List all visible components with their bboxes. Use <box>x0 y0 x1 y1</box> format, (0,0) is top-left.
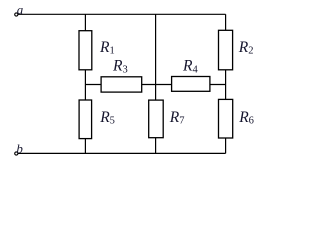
terminal b open circle <box>15 152 18 155</box>
resistor R2 <box>219 30 233 70</box>
wire middle horizontal (through R3 and R4) <box>85 84 225 86</box>
resistor R5 <box>79 100 92 139</box>
resistor R6 <box>219 99 233 138</box>
wire left column vertical (through R1 and R5 leads) <box>84 14 86 153</box>
resistor R1 <box>79 31 92 70</box>
wire middle column vertical (through R7) <box>155 14 157 153</box>
terminal a open circle <box>15 13 18 16</box>
wire right column vertical (through R2 and R6) <box>225 14 227 153</box>
resistor R3 <box>101 77 142 92</box>
svg-text:a: a <box>17 2 24 17</box>
svg-text:b: b <box>16 141 23 156</box>
wire bottom horizontal from terminal b to bottom-right corner <box>18 152 226 154</box>
resistor R7 <box>149 100 164 138</box>
wire top horizontal from terminal a to top-right corner <box>18 13 226 15</box>
resistor R4 <box>172 77 210 92</box>
